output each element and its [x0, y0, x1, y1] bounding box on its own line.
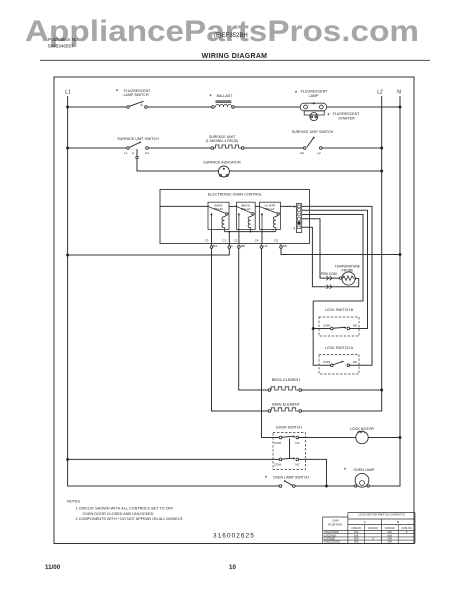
- probe connector chevrons upper: [326, 276, 332, 280]
- wire bake arm to terminal: [211, 229, 213, 243]
- svg-text:*: *: [209, 94, 212, 101]
- wire broil element to L2: [302, 389, 382, 391]
- surface unit switch pole 1: [124, 141, 149, 155]
- wire P drop to indicator row: [137, 159, 218, 171]
- fluorescent lamp label: [295, 90, 328, 98]
- svg-text:316002625: 316002625: [213, 532, 255, 539]
- wire spine to lock switch B COM: [313, 328, 330, 330]
- svg-text:BAKE ELEMENT: BAKE ELEMENT: [272, 403, 300, 407]
- broil element: [268, 387, 301, 392]
- svg-text:FLUORESCENT: FLUORESCENT: [124, 89, 152, 93]
- ballast L1 inductor: [212, 101, 235, 108]
- wire door switch pole2 to lamp node: [299, 459, 327, 486]
- wire L2 rail: [301, 96, 382, 411]
- bake element: [268, 408, 301, 413]
- oven lamp switch label: [265, 476, 310, 482]
- terminal C3 BA: [205, 238, 218, 248]
- wire L1 to door switch pole 2: [68, 458, 280, 460]
- svg-text:H1: H1: [145, 151, 149, 155]
- junction lamp node: [325, 485, 328, 488]
- lock switch A box: [319, 355, 359, 375]
- svg-text:*: *: [327, 112, 330, 119]
- wire L1 to surface switch: [68, 147, 127, 149]
- svg-text:*: *: [295, 90, 298, 97]
- junction coil bus broil: [250, 231, 252, 233]
- svg-text:POSITION: POSITION: [328, 523, 342, 527]
- svg-text:LM: LM: [263, 244, 268, 248]
- svg-text:OVEN LAMP: OVEN LAMP: [354, 468, 376, 472]
- svg-text:L1: L1: [65, 90, 71, 96]
- ballast label: [209, 94, 233, 101]
- junction N-fluorescent: [399, 106, 402, 109]
- svg-text:NO: NO: [353, 323, 358, 327]
- svg-text:LAMP: LAMP: [309, 94, 319, 98]
- fluorescent starter label: [327, 112, 360, 120]
- wire switch to lamp node: [295, 485, 325, 487]
- svg-text:N/A: N/A: [388, 540, 393, 544]
- EOC box: [160, 190, 310, 244]
- fluorescent lamp switch label: [116, 89, 151, 98]
- door switch pole 2: [274, 458, 300, 467]
- svg-text:WIRING DIAGRAM: WIRING DIAGRAM: [202, 53, 268, 60]
- svg-text:COM: COM: [323, 323, 331, 327]
- svg-text:NO: NO: [353, 360, 358, 364]
- wire terminal DS to N: [281, 248, 400, 254]
- temperature probe RT1: [340, 272, 357, 285]
- svg-text:N/A: N/A: [354, 540, 359, 544]
- diagram border frame: [54, 77, 414, 544]
- terminal C4 LM: [255, 238, 268, 248]
- junction L2-surface: [380, 147, 383, 150]
- wire switch to surface element: [148, 147, 211, 149]
- svg-text:LOCK SWITCH A: LOCK SWITCH A: [325, 346, 354, 350]
- svg-text:11/00: 11/00: [45, 564, 61, 571]
- svg-text:Publication No.: Publication No.: [48, 37, 79, 42]
- svg-text:X: X: [372, 537, 374, 541]
- svg-text:NC: NC: [295, 463, 300, 467]
- lock switch B: [323, 323, 358, 330]
- wire switch to ballast: [147, 106, 212, 108]
- svg-text:BALLAST: BALLAST: [217, 94, 234, 98]
- junction L2-indicator: [380, 170, 383, 173]
- svg-text:UNLOCKING: UNLOCKING: [324, 540, 340, 544]
- junction N-lock motor: [399, 436, 402, 439]
- wire ballast to lamp: [234, 106, 300, 108]
- svg-text:P: P: [132, 152, 134, 156]
- notes block: [67, 499, 183, 521]
- svg-text:5995346557: 5995346557: [48, 44, 74, 49]
- fluorescent starter: [304, 111, 324, 121]
- lock switch B box: [319, 317, 359, 336]
- svg-text:2 COMPONENTS WITH * DO NOT A: 2 COMPONENTS WITH * DO NOT APPEAR ON ALL…: [76, 517, 183, 521]
- svg-text:AppliancePartsPros.com: AppliancePartsPros.com: [25, 15, 419, 48]
- probe connector chevrons lower: [326, 285, 332, 289]
- lock motor M: [356, 431, 368, 444]
- oven lamp: [355, 473, 370, 487]
- svg-text:N: N: [397, 90, 401, 96]
- svg-text:H2: H2: [300, 151, 304, 155]
- wire relay common chain: [160, 205, 296, 207]
- svg-text:1: 1: [293, 205, 295, 209]
- svg-text:L2: L2: [377, 90, 383, 96]
- relay K3 lock motor: [259, 202, 280, 231]
- wire lamp node to oven lamp: [328, 485, 355, 487]
- lock switch A: [323, 360, 358, 367]
- svg-text:*: *: [344, 468, 347, 474]
- svg-text:L2: L2: [317, 151, 321, 155]
- junction L1-surface: [66, 147, 69, 150]
- svg-text:NOTES: NOTES: [67, 499, 81, 503]
- junction coil bus riser: [228, 231, 230, 233]
- svg-text:*: *: [265, 476, 268, 482]
- fluorescent lamp FL1: [300, 102, 326, 110]
- svg-text:BA: BA: [213, 244, 217, 248]
- svg-text:OVEN LAMP SWITCH: OVEN LAMP SWITCH: [273, 476, 309, 480]
- svg-text:DS: DS: [283, 244, 287, 248]
- svg-text:C3: C3: [205, 238, 209, 242]
- svg-text:X: X: [406, 530, 408, 534]
- wire BR terminal to broil element: [239, 248, 268, 390]
- surface unit label: [206, 135, 239, 143]
- terminal C1 1: [222, 238, 233, 248]
- wire element to switch pole 2: [244, 147, 304, 149]
- svg-text:C1: C1: [222, 238, 226, 242]
- svg-text:1: 1: [231, 244, 233, 248]
- svg-text:NC: NC: [295, 441, 300, 445]
- svg-text:SURFACE UNIT SWITCH: SURFACE UNIT SWITCH: [117, 137, 159, 141]
- wire pin4 to probe: [302, 219, 340, 278]
- oven lamp switch: [279, 480, 295, 488]
- terminal C5 DS: [274, 238, 287, 248]
- wire BA terminal to bake element: [212, 248, 269, 411]
- svg-text:A: A: [364, 520, 366, 524]
- fluorescent lamp switch: [127, 101, 148, 108]
- svg-text:COM: COM: [323, 360, 331, 364]
- wire pin2 to lock switch B NO: [302, 210, 368, 328]
- svg-text:1 CIRCUIT SHOWN WITH ALL CON: 1 CIRCUIT SHOWN WITH ALL CONTROLS SET TO…: [76, 507, 174, 511]
- svg-text:OVEN DOOR CLOSED AND UNLOCKED: OVEN DOOR CLOSED AND UNLOCKED: [83, 512, 154, 516]
- svg-text:L1: L1: [124, 151, 128, 155]
- svg-text:STARTER: STARTER: [338, 116, 355, 120]
- wire indicator to L2: [229, 170, 381, 172]
- oven lamp label: [344, 468, 375, 474]
- svg-text:COM-NC: COM-NC: [351, 527, 361, 530]
- svg-text:PRB COM: PRB COM: [321, 272, 337, 276]
- svg-text:B: B: [397, 520, 399, 524]
- svg-text:COM: COM: [274, 463, 282, 467]
- relay K2 broil: [237, 202, 256, 231]
- wire lock motor to N: [368, 437, 400, 439]
- wire lkmtr arm to terminal: [261, 229, 263, 243]
- svg-text:BR: BR: [241, 244, 246, 248]
- svg-text:BROIL ELEMENT: BROIL ELEMENT: [272, 378, 301, 382]
- surface unit switch pole 2: [300, 136, 322, 155]
- svg-text:C5: C5: [274, 238, 278, 242]
- wire coil common bus: [224, 231, 275, 233]
- svg-text:DOOR SWITCH: DOOR SWITCH: [276, 425, 302, 429]
- door switch pole 1: [274, 436, 300, 445]
- junction L1-EOC: [66, 254, 69, 257]
- EOC connector J1: [293, 204, 301, 233]
- junction spine-lockB: [312, 327, 315, 330]
- svg-text:(F)EF352BH: (F)EF352BH: [214, 33, 248, 39]
- wire N rail: [369, 96, 400, 486]
- svg-text:10: 10: [229, 564, 236, 571]
- svg-text:SURFACE INDICATOR: SURFACE INDICATOR: [203, 161, 241, 165]
- svg-text:LOCK MOTOR SWITCH CONTACTS: LOCK MOTOR SWITCH CONTACTS: [358, 513, 405, 517]
- wire L1 to lamp switch: [68, 106, 127, 108]
- svg-text:A: A: [140, 103, 143, 107]
- svg-text:(1 SHOWN, 4 REQD): (1 SHOWN, 4 REQD): [206, 139, 239, 143]
- svg-text:LOCK MOTOR: LOCK MOTOR: [350, 427, 374, 431]
- wire L1 rail: [68, 96, 280, 486]
- title underline: [40, 59, 430, 61]
- svg-text:8: 8: [293, 226, 295, 230]
- wire LM terminal to door switch: [262, 248, 280, 437]
- svg-text:COM-NO: COM-NO: [401, 527, 411, 530]
- svg-text:SURFACE UNIT SWITCH: SURFACE UNIT SWITCH: [292, 130, 334, 134]
- terminal P of surface switch: [132, 149, 138, 159]
- svg-text:COM-NC: COM-NC: [385, 527, 395, 530]
- svg-text:ELECTRONIC OVEN CONTROL: ELECTRONIC OVEN CONTROL: [208, 192, 262, 196]
- svg-text:C4: C4: [255, 238, 259, 242]
- junction L1-door switch: [66, 458, 69, 461]
- svg-text:LOCK SWITCH B: LOCK SWITCH B: [325, 308, 354, 312]
- wire pin6 to probe return: [302, 227, 359, 286]
- junction N-DS: [399, 253, 402, 256]
- junction L1-fluorescent: [66, 106, 69, 109]
- surface indicator lamp: [218, 166, 229, 177]
- terminal C2 BR: [234, 238, 246, 248]
- wire pin1 to lock switch A NO: [302, 206, 372, 365]
- wire pin3 to lock switch spine: [302, 215, 363, 302]
- door switch link: [289, 439, 291, 459]
- svg-text:C2: C2: [234, 238, 238, 242]
- wire switch pole 2 to L2: [322, 147, 382, 149]
- wire broil arm to terminal: [238, 229, 240, 243]
- svg-text:LAMP SWITCH: LAMP SWITCH: [124, 93, 149, 97]
- wire lock switch spine: [313, 301, 330, 365]
- wire terminal-1 riser: [228, 232, 230, 246]
- svg-text:COM: COM: [274, 441, 282, 445]
- temperature probe label: [335, 264, 361, 272]
- svg-text:COM-NO: COM-NO: [368, 527, 378, 530]
- surface unit element: [211, 145, 244, 149]
- wire L1 to terminal 1: [68, 248, 230, 255]
- wire lamp to N: [327, 106, 400, 108]
- wire door switch to lock motor: [299, 437, 356, 439]
- relay K1 bake: [208, 202, 229, 231]
- junction L2-broil: [380, 389, 383, 392]
- lock motor switch contacts table: [323, 513, 415, 544]
- door switch box: [273, 433, 306, 470]
- svg-text:*: *: [116, 89, 119, 96]
